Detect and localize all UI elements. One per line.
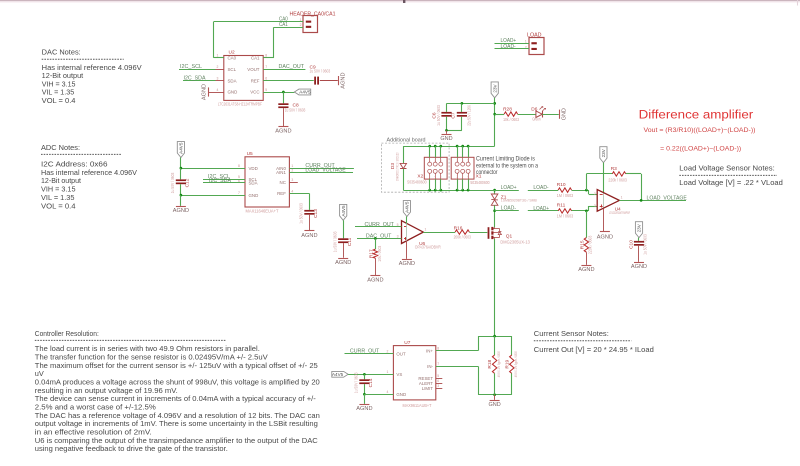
- junction sense top rail: [493, 335, 496, 338]
- svg-text:1u 50V / 0603: 1u 50V / 0603: [333, 231, 338, 252]
- wire net I2C_SDA (U2): [183, 80, 216, 82]
- resistor R18: [487, 336, 501, 395]
- connector X1: [451, 157, 490, 185]
- resistor R10: [557, 182, 574, 198]
- svg-text:CURR_OUT: CURR_OUT: [365, 222, 394, 228]
- svg-text:I2C_SCL: I2C_SCL: [180, 64, 202, 70]
- net label I2C_SDA: [184, 75, 207, 81]
- net label DAC_OUT (U6): [366, 233, 392, 239]
- svg-text:A4V5: A4V5: [179, 142, 184, 154]
- wire VDD to C12: [180, 168, 182, 179]
- junction 23V at C-rail: [493, 102, 496, 105]
- svg-text:VOL = 0.4: VOL = 0.4: [41, 201, 76, 210]
- svg-text:AGND: AGND: [301, 233, 317, 239]
- svg-text:1: 1: [621, 196, 623, 200]
- svg-text:DAC Notes:: DAC Notes:: [42, 49, 81, 57]
- note DAC Notes: [42, 49, 142, 105]
- svg-text:1: 1: [387, 370, 389, 374]
- svg-text:200k / 0603: 200k / 0603: [454, 235, 472, 240]
- IC U5 MAX11646 ADC: [237, 151, 298, 214]
- wire D6 to GND: [542, 114, 559, 116]
- svg-text:R28: R28: [503, 107, 512, 113]
- junction C7 top: [461, 102, 464, 105]
- svg-text:SDA: SDA: [249, 181, 258, 186]
- svg-text:CA1: CA1: [251, 56, 260, 61]
- junction Z1 bottom LOAD-: [493, 209, 496, 212]
- junction U5 VDD: [180, 167, 183, 170]
- header LOAD: [525, 32, 544, 54]
- header J1 HEADER_CA0/CA1: [290, 11, 336, 32]
- wire 23V to caps rail: [447, 103, 495, 105]
- svg-text:LTC2631ATS8-HZ12#TRMPBF: LTC2631ATS8-HZ12#TRMPBF: [218, 101, 262, 106]
- svg-text:CA1: CA1: [279, 22, 288, 28]
- capacitor C13: [299, 203, 319, 224]
- svg-text:LT6202IS5#TRMPBF: LT6202IS5#TRMPBF: [609, 211, 630, 215]
- svg-text:LOAD_VOLTAGE: LOAD_VOLTAGE: [305, 168, 346, 174]
- net label LOAD- (diff amp): [533, 185, 549, 191]
- wire 23V to C10: [638, 238, 640, 241]
- wire U7 IN- to bottom rail: [436, 366, 512, 394]
- op-amp U4: [594, 190, 631, 216]
- svg-text:MAX11646EUA+T: MAX11646EUA+T: [246, 209, 279, 214]
- svg-text:1M / 0603: 1M / 0603: [557, 193, 574, 198]
- svg-text:using negative feedback to dri: using negative feedback to drive the gat…: [35, 444, 228, 453]
- svg-text:23V: 23V: [637, 223, 642, 232]
- svg-text:7: 7: [238, 191, 240, 195]
- svg-text:AGND: AGND: [356, 406, 372, 412]
- IC U7 MAX9611 current sensor: [385, 340, 442, 408]
- junction connector top pins: [428, 145, 469, 148]
- svg-text:A4V5: A4V5: [332, 372, 344, 377]
- svg-text:AGND: AGND: [399, 261, 415, 267]
- connector X2: [407, 157, 447, 184]
- svg-text:R11: R11: [557, 203, 566, 209]
- svg-text:SCL: SCL: [228, 67, 237, 72]
- svg-text:AGND: AGND: [578, 267, 594, 273]
- IC U2 LTC2631 DAC: [216, 50, 272, 107]
- supply flag A4V5 (U6): [403, 201, 410, 217]
- svg-text:GND: GND: [440, 136, 452, 142]
- svg-text:R19: R19: [504, 359, 510, 368]
- net label LOAD- (rail): [501, 206, 517, 212]
- svg-text:Current Limiting Diode is: Current Limiting Diode is: [476, 157, 535, 163]
- supply flag 23V (U4): [600, 147, 607, 163]
- supply flag 23V (C10): [635, 222, 642, 238]
- junction connector bottom pins: [428, 189, 469, 192]
- net label LOAD_VOLTAGE (U5): [305, 168, 346, 174]
- svg-text:CURR_OUT: CURR_OUT: [350, 349, 379, 355]
- wire net CURR_OUT (U5 AIN0): [289, 168, 354, 170]
- supply flag A4V5 (C11): [340, 204, 347, 220]
- ground AGND at U2 GND pin: [202, 84, 216, 100]
- wire 23V to R28: [495, 114, 504, 116]
- wire U7 IN+ to sense rail: [436, 336, 512, 351]
- ground AGND below C14: [356, 394, 372, 412]
- ground AGND after C9: [320, 72, 347, 88]
- svg-text:LOAD-: LOAD-: [501, 44, 517, 50]
- ground GND after D6: [560, 108, 568, 120]
- svg-text:2: 2: [300, 23, 302, 27]
- capacitor C7: [451, 103, 472, 130]
- wire VCC to C8: [283, 92, 285, 103]
- svg-text:MAX9611AUB+T: MAX9611AUB+T: [403, 403, 432, 408]
- svg-text:VS: VS: [396, 372, 402, 377]
- svg-text:Current Sensor Notes:: Current Sensor Notes:: [534, 330, 609, 338]
- svg-text:6: 6: [437, 379, 439, 383]
- wire net CURR_OUT (U7): [345, 353, 394, 355]
- svg-text:1u 50V / 0603: 1u 50V / 0603: [285, 108, 306, 113]
- wire net LOAD- to R10: [528, 190, 558, 192]
- note Controller Resolution: [35, 330, 320, 453]
- wire net I2C_SCL (U5): [203, 179, 245, 181]
- svg-text:AGND: AGND: [597, 235, 613, 241]
- ground AGND below U4: [597, 232, 613, 241]
- svg-text:LIMIT: LIMIT: [422, 386, 434, 391]
- net label CURR_OUT (U7): [350, 349, 379, 355]
- junction U4 out / feedback: [640, 199, 643, 202]
- junction U4 +in / R15: [585, 210, 588, 213]
- wire net LOAD_VOLTAGE (U5 AIN1): [289, 172, 353, 174]
- wire feedback right leg: [626, 174, 642, 201]
- svg-text:2: 2: [594, 192, 596, 196]
- net label I2C_SDA (U5): [209, 178, 232, 184]
- svg-text:1: 1: [425, 227, 427, 231]
- ground AGND below C11: [335, 243, 351, 266]
- svg-text:220k / 0603: 220k / 0603: [608, 177, 627, 182]
- svg-text:LOAD+: LOAD+: [501, 185, 517, 191]
- svg-text:22u 50V / 1206: 22u 50V / 1206: [466, 105, 471, 126]
- net label I2C_SCL: [180, 64, 202, 70]
- svg-text:49.9 0.1% 5ppm / 0805: 49.9 0.1% 5ppm / 0805: [514, 351, 518, 377]
- ground AGND below R15: [578, 266, 594, 274]
- svg-text:7: 7: [437, 362, 439, 366]
- diode D3: [390, 146, 406, 190]
- svg-text:DMG2305UX-13: DMG2305UX-13: [500, 239, 530, 244]
- svg-text:3: 3: [437, 384, 439, 388]
- svg-text:5: 5: [437, 374, 439, 378]
- svg-text:AGND: AGND: [275, 128, 291, 134]
- svg-text:3: 3: [217, 76, 219, 80]
- svg-text:AGND: AGND: [367, 277, 383, 283]
- svg-text:1M / 0603: 1M / 0603: [557, 214, 574, 219]
- title Difference amplifier: [639, 108, 756, 153]
- svg-text:REF: REF: [251, 78, 260, 83]
- svg-text:I2C_SDA: I2C_SDA: [184, 75, 207, 81]
- svg-text:GND: GND: [228, 90, 238, 95]
- svg-text:X1: X1: [476, 174, 482, 180]
- resistor R16: [454, 225, 472, 239]
- wire caps bottom rail: [447, 130, 462, 132]
- net label CA0: [279, 17, 288, 23]
- wire net CA1: [263, 27, 303, 58]
- svg-text:LOAD_VOLTAGE: LOAD_VOLTAGE: [647, 195, 688, 201]
- svg-text:Difference amplifier: Difference amplifier: [639, 108, 754, 122]
- junction U7 GND / C14: [363, 393, 366, 396]
- wire 23V vertical: [494, 98, 496, 146]
- ground AGND below U6: [399, 260, 415, 268]
- svg-text:C7: C7: [451, 112, 457, 118]
- svg-text:Green: Green: [532, 117, 541, 122]
- wire connector pins to 23V rail: [430, 146, 469, 157]
- svg-text:AGND: AGND: [631, 264, 647, 270]
- resistor R11: [557, 203, 574, 219]
- wire U5 REF to C13: [289, 194, 309, 210]
- svg-text:= 0.22((LOAD+)−(LOAD-)): = 0.22((LOAD+)−(LOAD-)): [660, 145, 741, 152]
- svg-text:AGND: AGND: [202, 84, 208, 100]
- svg-text:8: 8: [238, 164, 240, 168]
- net label LOAD- (header): [501, 44, 517, 50]
- note Current Sensor Notes: [534, 330, 654, 354]
- transistor Q1 DMG2305UX: [489, 227, 531, 245]
- svg-text:OUT: OUT: [396, 351, 406, 356]
- svg-text:10k / 0603: 10k / 0603: [377, 245, 382, 262]
- ground GND below sense resistors: [489, 395, 501, 409]
- svg-text:1u 50V / 0603: 1u 50V / 0603: [170, 172, 175, 193]
- wire C12 to GND node: [181, 184, 246, 195]
- svg-text:CMAD6001 TR13 / SOD123: CMAD6001 TR13 / SOD123: [396, 153, 400, 182]
- supply flag 23V (main): [491, 82, 498, 98]
- svg-text:GND: GND: [396, 392, 406, 397]
- svg-text:4: 4: [291, 189, 293, 193]
- svg-text:1SMB5920BT3G / SMB: 1SMB5920BT3G / SMB: [501, 198, 537, 202]
- wire R28 to D6: [518, 114, 536, 116]
- wire net LOAD+ (header): [495, 43, 530, 45]
- wire net LOAD+ rail: [403, 190, 519, 192]
- ground AGND below C8: [275, 108, 291, 134]
- junction Z1 top LOAD+: [493, 189, 496, 192]
- svg-text:GND: GND: [489, 402, 501, 408]
- wire Q1 drain to LOAD- node: [494, 211, 496, 228]
- wire net DAC_OUT: [263, 69, 305, 71]
- svg-text:R10: R10: [557, 182, 566, 188]
- supply flag A4V5 (U5): [177, 142, 184, 158]
- net label CURR_OUT (U6): [365, 222, 394, 228]
- ground AGND below C13: [301, 215, 317, 239]
- svg-text:4: 4: [387, 390, 389, 394]
- ground AGND below R17: [367, 276, 383, 284]
- wire R11 to U4 +in: [572, 206, 598, 211]
- svg-text:AGND: AGND: [341, 72, 347, 88]
- svg-text:R17: R17: [368, 249, 374, 258]
- svg-text:DAC_OUT: DAC_OUT: [279, 64, 305, 70]
- svg-text:U7: U7: [404, 340, 410, 346]
- svg-text:LOAD-: LOAD-: [533, 185, 549, 191]
- resistor R15: [579, 211, 592, 265]
- svg-text:3: 3: [397, 235, 399, 239]
- svg-text:1u 50V / 0603: 1u 50V / 0603: [299, 203, 304, 224]
- wire U6 V- to AGND: [406, 241, 408, 259]
- capacitor C14: [354, 372, 374, 394]
- net label LOAD_VOLTAGE (U4): [647, 195, 688, 201]
- svg-text:1u 50V / 0603: 1u 50V / 0603: [354, 372, 359, 393]
- wire R10 to U4 -in: [572, 190, 598, 194]
- wire A4V5 to C11: [343, 220, 345, 238]
- svg-text:R18: R18: [487, 359, 493, 368]
- capacitor C11: [333, 231, 353, 252]
- note Current Limiting Diode: [476, 157, 539, 176]
- wire U4 V- to AGND: [603, 209, 605, 232]
- svg-text:1u 50V / 0603: 1u 50V / 0603: [310, 69, 331, 74]
- svg-text:OPA376AIDBVR: OPA376AIDBVR: [415, 245, 441, 250]
- junction U4 -in / feedback: [585, 189, 588, 192]
- wire net LOAD- (header): [495, 48, 530, 50]
- svg-text:SDA: SDA: [228, 78, 237, 83]
- svg-text:IN+: IN+: [426, 348, 433, 353]
- dashed box Additional board: [381, 138, 449, 193]
- net label CURR_OUT (U5): [305, 163, 334, 169]
- svg-text:A4V5: A4V5: [299, 90, 311, 95]
- wire net CURR_OUT (U6 -in): [355, 226, 402, 228]
- svg-text:AGND: AGND: [335, 260, 351, 266]
- svg-text:3: 3: [291, 178, 293, 182]
- note Load Voltage Sensor Notes: [679, 165, 783, 187]
- svg-text:IN-: IN-: [427, 364, 433, 369]
- wire U6 out to R16: [423, 232, 455, 234]
- svg-text:The maximum offset for the cur: The maximum offset for the current senso…: [35, 361, 318, 370]
- svg-text:3: 3: [594, 204, 596, 208]
- wire net I2C_SCL (U2): [179, 69, 216, 71]
- svg-text:U5: U5: [247, 151, 253, 157]
- supply flag A4V5 (U7): [332, 371, 348, 377]
- svg-text:1u 50V / 0603: 1u 50V / 0603: [436, 105, 441, 126]
- op-amp U6: [397, 221, 441, 250]
- svg-text:R15: R15: [579, 240, 585, 249]
- frame top border: [0, 0, 800, 6]
- svg-text:CA0: CA0: [228, 56, 237, 61]
- wire net LOAD- stub: [495, 210, 519, 212]
- svg-text:C11: C11: [347, 237, 353, 246]
- wire net CA0: [214, 22, 304, 58]
- svg-text:D6: D6: [531, 106, 537, 112]
- capacitor C10: [629, 234, 648, 255]
- svg-text:6: 6: [265, 76, 267, 80]
- LED D6: [531, 106, 546, 121]
- resistor R28: [503, 107, 520, 123]
- junction sense bottom rail: [493, 393, 496, 396]
- svg-text:Additional board: Additional board: [387, 138, 426, 144]
- net label I2C_SCL (U5): [208, 174, 230, 180]
- svg-text:AGND: AGND: [173, 208, 189, 214]
- svg-text:GND: GND: [249, 193, 259, 198]
- note ADC Notes: [41, 144, 137, 210]
- ground GND below caps: [440, 130, 452, 142]
- junction U7 VS / C14: [363, 373, 366, 376]
- svg-text:Load Voltage Sensor Notes:: Load Voltage Sensor Notes:: [679, 165, 774, 173]
- wire net LOAD+ to R11: [528, 210, 558, 212]
- svg-text:DAC_OUT: DAC_OUT: [366, 233, 392, 239]
- wire A4V5 to U6 V+: [406, 217, 408, 241]
- capacitor C12: [170, 172, 190, 193]
- wire net LOAD_VOLTAGE (U4 out): [619, 200, 686, 202]
- svg-text:R3: R3: [611, 166, 617, 172]
- svg-text:HEADER_CA0/CA1: HEADER_CA0/CA1: [290, 11, 336, 17]
- wire Q1 source down to sense resistors: [494, 239, 496, 336]
- svg-text:REF: REF: [277, 191, 286, 196]
- wire A4V5 to U5 VDD: [181, 158, 246, 169]
- svg-text:VDD: VDD: [249, 166, 258, 171]
- svg-text:C14: C14: [368, 378, 374, 387]
- resistor R3: [608, 166, 627, 183]
- svg-text:R16: R16: [454, 225, 463, 231]
- wire C14 to U7 GND: [364, 394, 393, 396]
- svg-text:Vout = (R3/R10)((LOAD+)−(LOAD-: Vout = (R3/R10)((LOAD+)−(LOAD-)): [644, 127, 756, 134]
- junction 23V at R28 row: [493, 113, 496, 116]
- svg-text:Current Out [V] = 20 * 24.95 *: Current Out [V] = 20 * 24.95 * ILoad: [534, 345, 654, 354]
- svg-text:220k / 0603: 220k / 0603: [588, 235, 593, 254]
- net label LOAD+ (header): [501, 38, 517, 44]
- svg-text:A4V5: A4V5: [405, 201, 410, 213]
- svg-text:AIN1: AIN1: [276, 170, 286, 175]
- ground AGND below C12: [173, 195, 189, 214]
- junction GND drop: [445, 129, 448, 132]
- net label LOAD+ (diff amp): [533, 206, 549, 212]
- svg-text:Load Voltage [V] = .22 * VLoad: Load Voltage [V] = .22 * VLoad: [679, 178, 783, 187]
- supply flag A4V5 (U2): [294, 89, 311, 95]
- svg-text:1u 50V / 0603: 1u 50V / 0603: [642, 234, 647, 255]
- svg-text:10k / 0603: 10k / 0603: [503, 117, 520, 122]
- svg-text:2: 2: [217, 65, 219, 69]
- wire 23V to U4 V+: [603, 163, 605, 209]
- svg-text:C13: C13: [313, 209, 319, 218]
- svg-text:NC: NC: [280, 180, 286, 185]
- junction U2 VCC: [282, 91, 285, 94]
- svg-text:C10: C10: [629, 240, 635, 249]
- svg-text:5035480600: 5035480600: [470, 180, 490, 185]
- capacitor C6: [432, 103, 452, 130]
- svg-text:5035480600: 5035480600: [407, 180, 427, 185]
- junction DAC_OUT / R17: [374, 237, 377, 240]
- net label LOAD+ (rail): [501, 185, 517, 191]
- wire net DAC_OUT (U6 +in): [357, 238, 402, 240]
- svg-text:VCC: VCC: [250, 90, 259, 95]
- ground AGND below C10: [631, 246, 647, 270]
- svg-text:7: 7: [265, 65, 267, 69]
- svg-text:ADC Notes:: ADC Notes:: [41, 144, 80, 152]
- svg-text:23V: 23V: [492, 83, 497, 92]
- svg-text:23V: 23V: [601, 148, 606, 157]
- svg-text:VOUT: VOUT: [247, 67, 260, 72]
- svg-text:8: 8: [437, 347, 439, 351]
- junction U5 GND: [180, 194, 183, 197]
- svg-text:C12: C12: [185, 178, 191, 187]
- net label CA1: [279, 22, 288, 28]
- wire R16 to Q1 gate: [469, 232, 487, 234]
- svg-text:external to the system on a: external to the system on a: [476, 163, 539, 169]
- diode Z1 TVS: [491, 190, 537, 211]
- svg-text:I2C_SDA: I2C_SDA: [209, 178, 232, 184]
- svg-text:5: 5: [265, 88, 267, 92]
- net label DAC_OUT: [279, 64, 305, 70]
- capacitor C9: [310, 64, 331, 84]
- wire feedback left leg: [586, 174, 612, 191]
- resistor R17: [368, 239, 382, 276]
- wire U2 VCC to A4V5: [263, 92, 294, 94]
- svg-text:2: 2: [387, 349, 389, 353]
- wire connector pins to LOAD+ rail: [430, 179, 469, 190]
- wire net I2C_SDA (U5): [203, 182, 245, 184]
- svg-text:49.9 0.1% 5ppm / 0805: 49.9 0.1% 5ppm / 0805: [497, 351, 501, 377]
- svg-text:1: 1: [291, 164, 293, 168]
- resistor R19: [504, 336, 518, 395]
- svg-text:4: 4: [217, 88, 219, 92]
- svg-text:LOAD+: LOAD+: [533, 206, 549, 212]
- svg-text:GND: GND: [562, 108, 568, 120]
- wire 23V rail to connectors: [403, 146, 494, 148]
- svg-text:VOL = 0.4: VOL = 0.4: [42, 96, 76, 105]
- wire A4V5 to U7 VS: [348, 374, 393, 376]
- svg-text:Controller Resolution:: Controller Resolution:: [35, 330, 99, 338]
- wire U2 REF to C9: [263, 80, 314, 82]
